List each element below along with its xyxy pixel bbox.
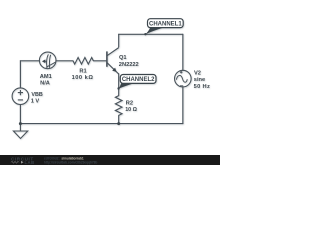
voltage source VBB [12,88,29,105]
wire emitter down [118,74,120,96]
wire left rail [19,61,21,88]
wire R1 to base [93,60,106,62]
wire right rail lower [182,87,184,124]
svg-text:2N2222: 2N2222 [119,62,139,68]
wire ammeter to R1 [56,60,73,62]
transistor Q1 [107,48,119,74]
svg-text:100 kΩ: 100 kΩ [72,75,94,81]
watermark bar [0,155,220,165]
svg-text:N/A: N/A [40,80,50,86]
watermark logo LAB with resistor [11,160,35,165]
wire top rail [119,33,183,35]
flag CHANNEL2 [117,75,156,90]
svg-text:V2: V2 [194,70,201,76]
svg-text:CHANNEL2: CHANNEL2 [122,77,155,83]
wire VBB bottom to rail [19,104,21,123]
svg-text:AM1: AM1 [40,74,52,80]
svg-text:1 V: 1 V [31,98,40,104]
svg-text:VBB: VBB [31,92,42,98]
wire right rail upper [182,34,184,70]
svg-text:Q1: Q1 [119,55,127,61]
flag CHANNEL1 [144,19,183,36]
junction dot VBB bottom [19,122,22,125]
ground [13,124,27,139]
ammeter AM1 [39,52,56,69]
svg-text:http://circuitlab.com/c8b23eqq: http://circuitlab.com/c8b23eqq678b [44,160,97,164]
svg-text:10 Ω: 10 Ω [125,107,137,113]
svg-text:sine: sine [194,77,205,83]
wire R2 bottom to rail [118,115,120,123]
wire collector to top rail [118,34,120,47]
resistor R1 [73,58,93,65]
svg-text:R2: R2 [126,100,133,106]
svg-text:CHANNEL1: CHANNEL1 [149,21,182,27]
voltage source V2 [175,70,192,87]
svg-text:R1: R1 [79,68,86,74]
resistor R2 [115,96,122,116]
wire bottom rail [20,123,182,125]
svg-text:50 Hz: 50 Hz [194,84,211,90]
svg-text:LAB: LAB [25,160,35,165]
wire base row left [20,60,39,62]
junction dot R2 bottom [117,122,120,125]
